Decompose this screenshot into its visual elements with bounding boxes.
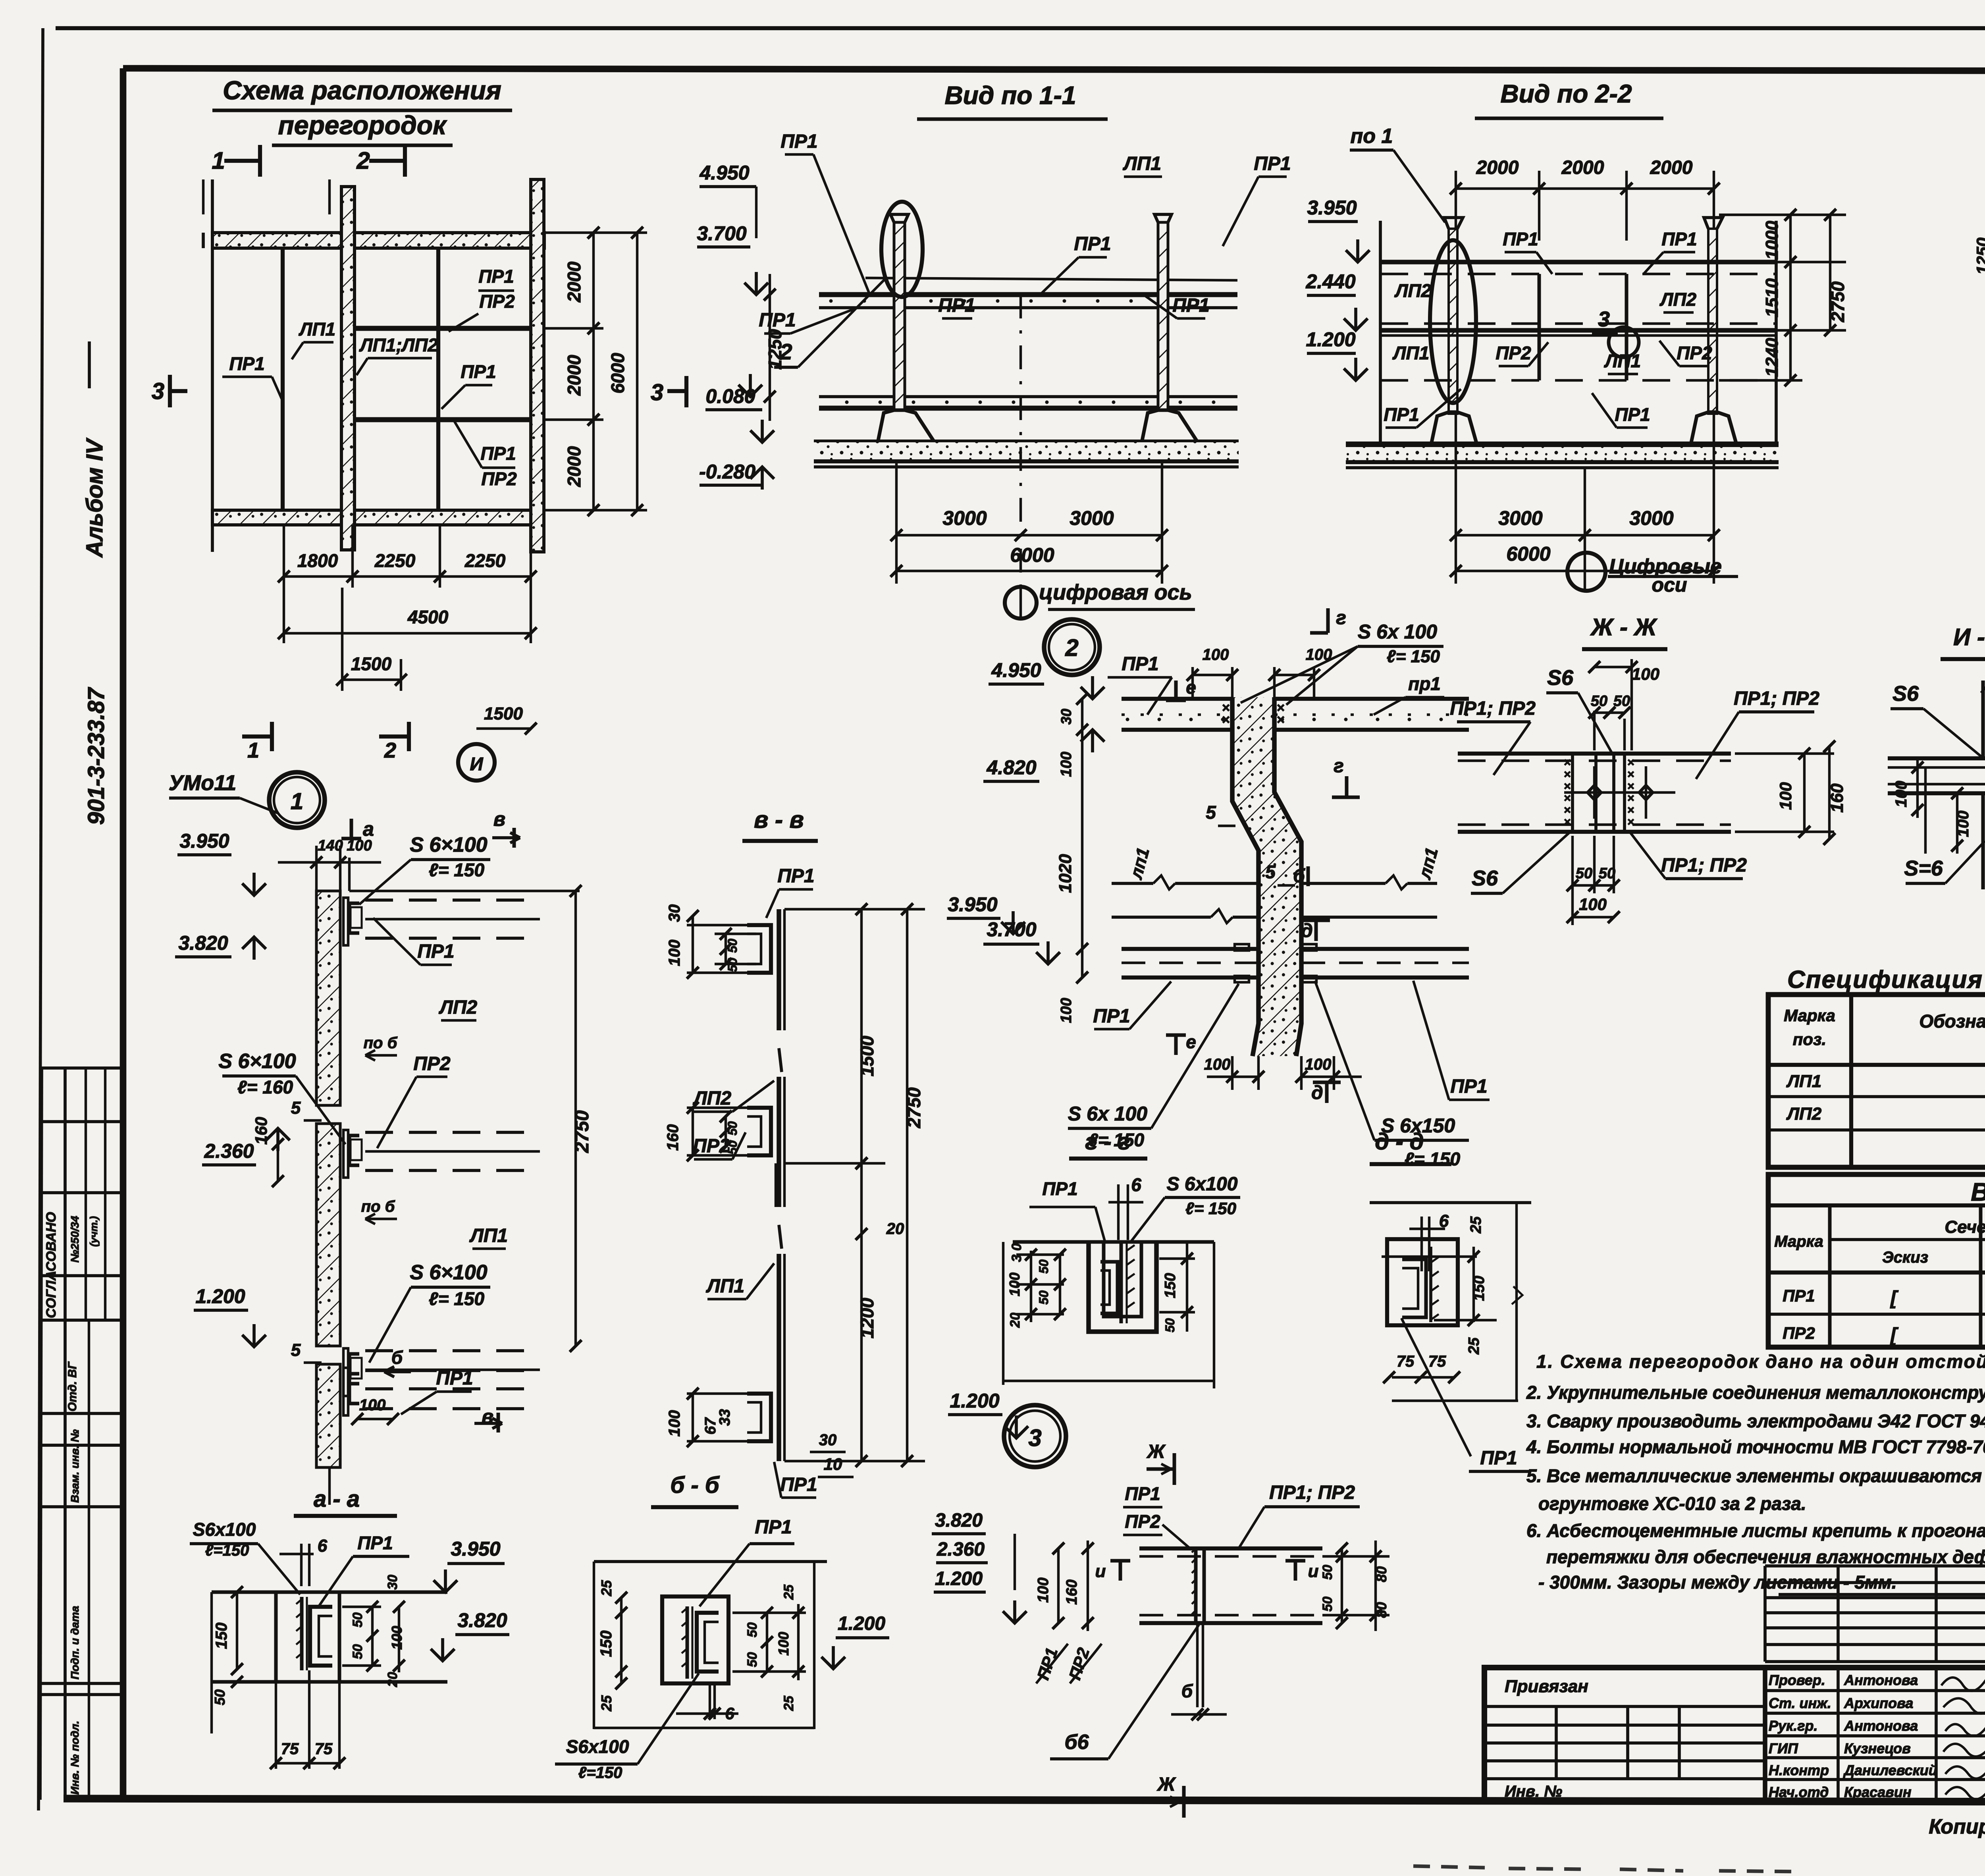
svg-text:Провер.: Провер. [1769, 1672, 1825, 1688]
svg-text:ПР1: ПР1 [759, 310, 796, 331]
svg-text:ℓ=150: ℓ=150 [578, 1764, 622, 1782]
svg-text:Сечение: Сечение [1945, 1217, 1985, 1237]
svg-text:1.200: 1.200 [1306, 328, 1355, 351]
svg-text:г - г: г - г [1085, 1129, 1130, 1155]
svg-text:д - д: д - д [1375, 1129, 1424, 1155]
svg-text:по б: по б [364, 1034, 398, 1052]
svg-text:Ж - Ж: Ж - Ж [1590, 614, 1658, 640]
svg-text:ℓ= 150: ℓ= 150 [1387, 647, 1440, 666]
svg-text:Ѕ 6х 100: Ѕ 6х 100 [1358, 621, 1437, 643]
svg-text:ℓ= 150: ℓ= 150 [429, 860, 485, 880]
svg-text:2000: 2000 [1476, 157, 1519, 178]
svg-text:ПР1: ПР1 [1615, 404, 1650, 425]
svg-text:ПР1: ПР1 [1074, 233, 1111, 255]
svg-text:ПР2: ПР2 [1677, 343, 1712, 363]
svg-text:Ж: Ж [1146, 1441, 1166, 1462]
svg-text:30: 30 [385, 1575, 400, 1590]
svg-text:3.950: 3.950 [451, 1538, 500, 1560]
svg-text:ПР1: ПР1 [417, 941, 454, 962]
svg-text:ПР1: ПР1 [1254, 153, 1291, 174]
svg-text:5: 5 [1206, 802, 1216, 823]
svg-text:огрунтовке ХС-010 за 2 раза.: огрунтовке ХС-010 за 2 раза. [1538, 1493, 1806, 1514]
svg-text:100: 100 [1203, 646, 1229, 663]
svg-text:50: 50 [350, 1644, 365, 1659]
svg-text:-0.280: -0.280 [699, 461, 755, 483]
svg-text:ПР1; ПР2: ПР1; ПР2 [1269, 1482, 1355, 1503]
svg-text:5: 5 [1265, 862, 1276, 882]
svg-text:Ѕ 6х 100: Ѕ 6х 100 [1068, 1103, 1147, 1125]
svg-text:Ѕ=6: Ѕ=6 [1904, 856, 1943, 880]
svg-text:×: × [1564, 756, 1571, 769]
svg-text:Ѕ6: Ѕ6 [1892, 682, 1919, 706]
svg-text:1000: 1000 [1762, 221, 1782, 260]
svg-text:б: б [391, 1347, 403, 1368]
svg-text:Н.контр: Н.контр [1769, 1762, 1829, 1778]
svg-text:ПР2: ПР2 [413, 1053, 451, 1074]
svg-text:100: 100 [1892, 781, 1910, 808]
svg-text:№250/34: №250/34 [69, 1216, 81, 1263]
svg-text:Рук.гр.: Рук.гр. [1769, 1718, 1818, 1734]
svg-text:ГИП: ГИП [1769, 1740, 1798, 1756]
svg-text:Схема расположения: Схема расположения [223, 75, 501, 105]
svg-text:4.950: 4.950 [991, 659, 1041, 681]
svg-text:3000: 3000 [1498, 507, 1542, 529]
svg-text:3: 3 [1028, 1425, 1041, 1451]
svg-text:ПР1; ПР2: ПР1; ПР2 [1661, 855, 1747, 876]
svg-text:СОГЛАСОВАНО: СОГЛАСОВАНО [44, 1212, 59, 1318]
svg-text:ПР1: ПР1 [1172, 295, 1209, 316]
svg-text:ПР1: ПР1 [1093, 1006, 1130, 1027]
svg-text:Ѕ 6×100: Ѕ 6×100 [410, 1261, 487, 1284]
svg-text:2.360: 2.360 [937, 1539, 985, 1560]
svg-text:ЛП1: ЛП1 [706, 1276, 744, 1297]
svg-text:2750: 2750 [904, 1087, 924, 1128]
svg-text:3.700: 3.700 [987, 918, 1036, 941]
svg-text:×: × [1627, 816, 1634, 829]
svg-text:ЛП1;ЛП2: ЛП1;ЛП2 [359, 335, 438, 355]
svg-text:3 0: 3 0 [1009, 1243, 1024, 1262]
svg-text:ПР1: ПР1 [1122, 654, 1158, 675]
svg-text:100: 100 [1058, 752, 1075, 777]
svg-text:ПР1: ПР1 [781, 131, 817, 152]
svg-text:ℓ= 150: ℓ= 150 [1185, 1199, 1236, 1218]
svg-text:50: 50 [725, 1121, 740, 1136]
svg-text:5: 5 [291, 1098, 301, 1118]
svg-text:25: 25 [598, 1580, 615, 1596]
svg-text:ПР2: ПР2 [1125, 1511, 1160, 1532]
svg-text:в: в [493, 808, 505, 830]
svg-text:и: и [1095, 1562, 1106, 1581]
svg-text:4500: 4500 [407, 607, 449, 627]
svg-text:ПР1: ПР1 [1042, 1178, 1077, 1199]
svg-text:Ѕ6х100: Ѕ6х100 [193, 1519, 256, 1540]
svg-text:ЛП1: ЛП1 [299, 319, 335, 339]
svg-text:6000: 6000 [1010, 544, 1054, 566]
svg-text:Ѕ6х100: Ѕ6х100 [566, 1736, 629, 1757]
svg-text:цифровая ось: цифровая ось [1039, 580, 1192, 604]
svg-text:160: 160 [252, 1117, 270, 1145]
svg-text:50: 50 [1163, 1318, 1177, 1332]
svg-text:50: 50 [350, 1612, 365, 1627]
svg-text:3: 3 [651, 380, 663, 405]
svg-text:1240: 1240 [1762, 338, 1782, 377]
svg-text:Альбом IV: Альбом IV [82, 438, 108, 558]
svg-text:150: 150 [213, 1623, 230, 1649]
svg-text:Отд. ВГ: Отд. ВГ [66, 1361, 79, 1411]
svg-text:(учт.): (учт.) [88, 1216, 100, 1247]
svg-text:×: × [1627, 756, 1634, 769]
svg-text:100: 100 [1204, 1056, 1231, 1073]
svg-text:75: 75 [315, 1740, 333, 1758]
svg-text:Антонова: Антонова [1844, 1718, 1918, 1734]
svg-text:1. Схема перегородок дан: 1. Схема перегородок дано на один отстой… [1536, 1351, 1985, 1372]
svg-text:а - а: а - а [314, 1486, 360, 1512]
svg-text:100: 100 [1632, 665, 1659, 683]
svg-text:ЛП2: ЛП2 [439, 997, 478, 1018]
svg-text:6. Асбестоцементные листы: 6. Асбестоцементные листы крепить к прог… [1526, 1520, 1985, 1541]
svg-text:ЛП1: ЛП1 [1786, 1072, 1821, 1091]
svg-text:20: 20 [886, 1220, 904, 1238]
svg-text:4. Болты нормальной точност: 4. Болты нормальной точности МВ ГОСТ 779… [1526, 1436, 1985, 1457]
svg-text:150: 150 [1162, 1273, 1179, 1298]
svg-text:д: д [1311, 1082, 1323, 1103]
svg-text:б - б: б - б [670, 1472, 720, 1498]
svg-text:×: × [1222, 712, 1230, 727]
svg-text:Данилевский: Данилевский [1843, 1762, 1937, 1778]
svg-text:50: 50 [1320, 1596, 1335, 1612]
svg-text:100: 100 [666, 940, 683, 966]
svg-text:1: 1 [291, 789, 303, 814]
svg-text:Инв. № подл.: Инв. № подл. [69, 1721, 81, 1795]
svg-text:ПР1: ПР1 [461, 361, 496, 382]
svg-text:2250: 2250 [374, 550, 416, 571]
svg-text:ЛП2: ЛП2 [1394, 280, 1432, 301]
svg-text:×: × [1564, 768, 1571, 781]
svg-text:50: 50 [1591, 693, 1607, 710]
svg-text:Кузнецов: Кузнецов [1844, 1740, 1911, 1756]
svg-text:Красавин: Красавин [1844, 1784, 1912, 1800]
svg-text:по 1: по 1 [1351, 125, 1393, 148]
svg-text:100: 100 [775, 1632, 792, 1656]
svg-text:И: И [470, 754, 483, 774]
svg-text:25: 25 [781, 1584, 796, 1600]
svg-text:Ст. инж.: Ст. инж. [1769, 1695, 1831, 1711]
svg-text:30: 30 [1058, 709, 1074, 725]
svg-text:5. Все металлические элементы: 5. Все металлические элементы окрашивают… [1526, 1465, 1985, 1486]
svg-text:Марка: Марка [1784, 1006, 1835, 1025]
svg-text:по б: по б [361, 1198, 395, 1215]
svg-text:3. Сварку производить электр: 3. Сварку производить электродами Э42 ГО… [1526, 1411, 1985, 1431]
svg-text:1.200: 1.200 [935, 1568, 983, 1589]
svg-text:30: 30 [666, 904, 683, 922]
svg-text:50: 50 [725, 939, 740, 953]
svg-text:Взам. инв. №: Взам. инв. № [69, 1429, 81, 1503]
svg-text:ПР1; ПР2: ПР1; ПР2 [1450, 698, 1536, 719]
svg-text:×: × [1564, 780, 1571, 793]
svg-text:100: 100 [1579, 895, 1607, 914]
svg-text:ПР1: ПР1 [436, 1368, 473, 1389]
svg-text:3000: 3000 [942, 507, 987, 529]
svg-text:3000: 3000 [1070, 507, 1114, 529]
svg-text:2.440: 2.440 [1305, 270, 1355, 293]
svg-text:2. Укрупнительные соединения: 2. Укрупнительные соединения металлоконс… [1526, 1382, 1985, 1403]
svg-text:Обозначение: Обозначение [1919, 1011, 1985, 1032]
svg-text:1: 1 [212, 147, 225, 174]
svg-text:25: 25 [781, 1695, 796, 1711]
svg-text:ПР1: ПР1 [1450, 1076, 1487, 1097]
svg-text:Ѕ 6х100: Ѕ 6х100 [1167, 1174, 1238, 1195]
svg-text:ПР1: ПР1 [478, 266, 514, 287]
svg-text:Копировал: Антипова: Копировал: Антипова [1929, 1815, 1985, 1838]
svg-text:ЛП1: ЛП1 [469, 1225, 508, 1246]
svg-text:100: 100 [1058, 998, 1075, 1023]
svg-text:ПР1; ПР2: ПР1; ПР2 [1734, 688, 1819, 709]
svg-text:1: 1 [247, 738, 259, 762]
svg-text:2000: 2000 [1650, 157, 1693, 178]
svg-text:100: 100 [359, 1396, 386, 1414]
svg-text:ЛП2: ЛП2 [693, 1088, 732, 1109]
svg-text:2: 2 [779, 339, 792, 364]
svg-text:75: 75 [1428, 1353, 1446, 1370]
svg-text:Марка: Марка [1774, 1233, 1823, 1250]
svg-text:3.950: 3.950 [948, 893, 997, 916]
svg-text:160: 160 [1827, 783, 1847, 813]
svg-text:2.360: 2.360 [204, 1140, 254, 1162]
svg-text:3.950: 3.950 [179, 830, 229, 852]
svg-text:Антонова: Антонова [1844, 1672, 1918, 1688]
svg-text:ПР1: ПР1 [1480, 1448, 1517, 1469]
svg-text:3: 3 [1598, 307, 1610, 331]
svg-text:ЛП1: ЛП1 [1604, 351, 1641, 371]
svg-text:×: × [1627, 804, 1634, 817]
svg-text:2: 2 [356, 147, 370, 174]
svg-text:4.820: 4.820 [986, 756, 1036, 779]
svg-text:ℓ= 150: ℓ= 150 [429, 1288, 485, 1309]
svg-text:ПР1: ПР1 [777, 866, 814, 887]
svg-text:б: б [1293, 866, 1305, 887]
svg-text:2750: 2750 [1827, 281, 1848, 322]
svg-text:6: 6 [1131, 1174, 1141, 1195]
svg-text:20: 20 [385, 1672, 400, 1687]
svg-text:3.820: 3.820 [935, 1510, 983, 1531]
svg-text:33: 33 [717, 1409, 733, 1426]
svg-text:6000: 6000 [1506, 543, 1550, 565]
svg-text:4.950: 4.950 [699, 162, 749, 184]
svg-text:3.700: 3.700 [697, 222, 746, 245]
svg-text:ℓ=150: ℓ=150 [205, 1542, 249, 1559]
svg-text:1.200: 1.200 [195, 1285, 245, 1307]
svg-text:×: × [1627, 780, 1634, 793]
svg-text:100: 100 [1776, 782, 1795, 810]
svg-text:50: 50 [1599, 865, 1615, 882]
svg-text:75: 75 [281, 1740, 299, 1758]
svg-text:1020: 1020 [1056, 854, 1075, 893]
svg-text:Подп. и дата: Подп. и дата [69, 1606, 81, 1679]
svg-text:0.080: 0.080 [705, 385, 755, 407]
svg-text:ПР1: ПР1 [1503, 229, 1538, 249]
svg-text:50: 50 [212, 1689, 228, 1705]
svg-text:100: 100 [1954, 811, 1972, 837]
svg-text:2000: 2000 [564, 446, 584, 487]
svg-text:50: 50 [1037, 1259, 1051, 1274]
svg-text:поз.: поз. [1793, 1030, 1826, 1049]
svg-text:Спецификация к схеме расположе: Спецификация к схеме расположения перего… [1787, 966, 1985, 993]
svg-text:2000: 2000 [1561, 157, 1604, 178]
svg-text:80: 80 [1373, 1566, 1389, 1582]
svg-text:6: 6 [725, 1704, 734, 1723]
svg-text:50: 50 [745, 1622, 760, 1637]
svg-text:ПР2: ПР2 [1783, 1324, 1815, 1342]
svg-text:1800: 1800 [297, 550, 338, 571]
svg-text:Ѕ 6×100: Ѕ 6×100 [410, 833, 487, 856]
svg-text:ПР1: ПР1 [780, 1474, 817, 1495]
svg-text:Ѕ 6×100: Ѕ 6×100 [218, 1050, 296, 1073]
svg-text:1500: 1500 [484, 704, 523, 723]
svg-text:д: д [1301, 920, 1313, 941]
svg-text:ПР2: ПР2 [693, 1136, 730, 1157]
svg-text:ЛП2: ЛП2 [1786, 1104, 1822, 1124]
svg-text:ПР1: ПР1 [938, 295, 975, 316]
svg-text:3: 3 [152, 378, 164, 404]
svg-text:ПР1: ПР1 [229, 353, 264, 374]
svg-text:Инв. №: Инв. № [1505, 1783, 1562, 1800]
svg-text:75: 75 [1397, 1353, 1415, 1370]
svg-text:е: е [1186, 1032, 1196, 1052]
svg-text:6: 6 [318, 1536, 328, 1556]
svg-text:Привязан: Привязан [1505, 1677, 1588, 1696]
svg-text:ПР1: ПР1 [357, 1533, 393, 1553]
svg-text:ПР1: ПР1 [1125, 1483, 1160, 1504]
svg-text:3000: 3000 [1629, 507, 1673, 529]
svg-text:И - И: И - И [1953, 624, 1985, 650]
svg-text:50: 50 [1320, 1565, 1335, 1580]
svg-text:2: 2 [1065, 634, 1078, 661]
svg-text:г: г [1336, 607, 1346, 629]
svg-text:100: 100 [666, 1410, 683, 1437]
svg-text:100: 100 [1035, 1577, 1052, 1602]
svg-text:г: г [1334, 756, 1344, 777]
svg-text:×: × [1627, 768, 1634, 781]
svg-text:перетяжки для обеспечения влаж: перетяжки для обеспечения влажностных де… [1546, 1546, 1985, 1567]
svg-text:пр1: пр1 [1408, 673, 1441, 694]
svg-text:ПР1: ПР1 [755, 1517, 792, 1538]
svg-text:Архипова: Архипова [1844, 1695, 1913, 1711]
svg-text:50: 50 [1576, 865, 1592, 882]
svg-text:ЛП2: ЛП2 [1659, 289, 1697, 310]
svg-text:3.820: 3.820 [457, 1609, 507, 1631]
svg-text:3.950: 3.950 [1307, 197, 1357, 219]
svg-text:а: а [363, 818, 374, 840]
svg-text:×: × [1564, 816, 1571, 829]
svg-text:50: 50 [1613, 693, 1630, 710]
svg-text:30: 30 [819, 1431, 837, 1449]
svg-text:е: е [1186, 677, 1196, 698]
svg-text:ЛП1: ЛП1 [1123, 153, 1161, 174]
svg-text:Ведомость элементов: Ведомость элементов [1971, 1178, 1985, 1206]
svg-text:1250: 1250 [1973, 237, 1985, 274]
svg-text:УМо11: УМо11 [169, 771, 237, 795]
svg-text:150: 150 [597, 1631, 615, 1657]
svg-text:ПР2: ПР2 [1495, 343, 1531, 363]
svg-text:Вид по 2-2: Вид по 2-2 [1500, 79, 1632, 108]
svg-text:50: 50 [745, 1652, 760, 1667]
svg-text:3.820: 3.820 [178, 932, 228, 954]
svg-text:ПР1: ПР1 [1384, 404, 1419, 425]
svg-text:ПР1: ПР1 [1783, 1286, 1815, 1305]
svg-text:25: 25 [1466, 1337, 1482, 1355]
svg-text:Ѕ6: Ѕ6 [1472, 866, 1498, 890]
svg-text:5: 5 [291, 1340, 301, 1360]
svg-text:50: 50 [1037, 1290, 1051, 1305]
svg-text:×: × [1277, 712, 1285, 727]
svg-text:901-3-233.87: 901-3-233.87 [83, 687, 109, 825]
svg-text:ПР1: ПР1 [1661, 229, 1697, 249]
svg-text:ПР1: ПР1 [480, 443, 516, 464]
svg-text:1500: 1500 [351, 654, 392, 674]
svg-text:10: 10 [824, 1455, 842, 1473]
svg-text:25: 25 [598, 1695, 615, 1712]
svg-text:100: 100 [1305, 1056, 1332, 1073]
svg-text:140: 140 [318, 837, 343, 854]
svg-text:2000: 2000 [564, 355, 584, 396]
svg-text:б6: б6 [1064, 1731, 1089, 1754]
svg-text:2000: 2000 [564, 261, 584, 303]
svg-text:2750: 2750 [572, 1110, 593, 1153]
svg-text:1200: 1200 [857, 1298, 877, 1338]
svg-text:Вид по 1-1: Вид по 1-1 [944, 81, 1076, 110]
svg-text:2250: 2250 [464, 550, 506, 571]
svg-text:6000: 6000 [607, 353, 628, 393]
svg-text:25: 25 [1468, 1216, 1484, 1234]
svg-text:160: 160 [1064, 1579, 1080, 1604]
svg-text:Ѕ6: Ѕ6 [1547, 666, 1574, 690]
svg-text:б: б [1181, 1681, 1193, 1701]
svg-text:160: 160 [664, 1124, 682, 1151]
svg-text:×: × [1564, 804, 1571, 817]
svg-text:в - в: в - в [754, 806, 804, 833]
svg-text:ЛП1: ЛП1 [1392, 343, 1429, 363]
svg-text:ПР2: ПР2 [479, 291, 515, 312]
svg-text:50: 50 [725, 958, 740, 972]
svg-text:Ж: Ж [1156, 1774, 1176, 1795]
svg-text:1.200: 1.200 [838, 1613, 885, 1634]
svg-text:2: 2 [384, 738, 396, 762]
svg-text:ПР2: ПР2 [481, 469, 517, 489]
svg-text:и: и [1308, 1562, 1319, 1581]
svg-text:1500: 1500 [857, 1035, 877, 1076]
svg-text:Эскиз: Эскиз [1882, 1249, 1928, 1266]
svg-text:100: 100 [389, 1626, 405, 1650]
svg-text:Нач.отд: Нач.отд [1769, 1784, 1829, 1800]
svg-text:ℓ= 160: ℓ= 160 [237, 1077, 293, 1097]
svg-text:перегородок: перегородок [278, 110, 447, 140]
svg-text:1510: 1510 [1762, 278, 1782, 317]
svg-text:100: 100 [347, 837, 372, 854]
svg-text:1.200: 1.200 [950, 1390, 999, 1412]
